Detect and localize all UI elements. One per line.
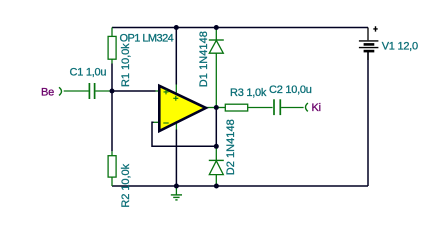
op-amp OP1 [154,85,217,132]
diode D1 [209,28,224,108]
resistor R3 [216,104,272,111]
capacitor C2 [274,99,280,115]
wire C2 to output port [281,107,304,109]
svg-text:R3 1,0k: R3 1,0k [230,87,267,99]
junction D1 on top rail [214,25,219,30]
wire C1 left lead [64,90,89,92]
port Be input connector [59,87,62,95]
svg-text:D2 1N4148: D2 1N4148 [225,119,237,175]
svg-text:Be: Be [41,86,54,98]
wire V+ supply from top rail to op-amp [175,28,177,85]
wire node A to R2 [111,91,113,151]
resistor R2 [108,151,116,186]
wire left vertical R1 to node A [111,64,113,92]
junction ground on bottom rail [174,184,179,189]
junction V+ on top rail [174,25,179,30]
battery V1 [359,26,379,60]
wire node A to op-amp noninverting input [112,90,156,92]
svg-text:OP1 LM324: OP1 LM324 [120,32,174,44]
junction feedback node [214,144,219,149]
svg-text:C1 1,0u: C1 1,0u [70,67,107,79]
svg-text:Ki: Ki [312,102,321,114]
wire bottom rail [112,185,368,187]
svg-text:R2 10,0k: R2 10,0k [120,163,132,207]
junction D2 on bottom rail [214,184,219,189]
capacitor C1 [89,83,94,99]
resistor R1 [108,28,116,64]
port Ki output connector [306,103,308,111]
diode D2 [209,146,224,186]
wire V- supply from op-amp to bottom rail [175,130,177,187]
wire output node to feedback node [215,108,217,147]
svg-text:V1 12,0: V1 12,0 [382,41,418,53]
svg-text:D1 1N4148: D1 1N4148 [198,31,210,87]
ground [171,186,182,200]
wire battery return right side [367,52,369,186]
svg-text:R1 10,0k: R1 10,0k [120,43,132,87]
junction node A C1/R1/R2/input [110,89,115,94]
junction output node [214,105,219,110]
wire C1 right lead [95,90,112,92]
wire feedback from inverting input to output node [152,122,216,146]
wire top rail [112,27,368,29]
svg-text:C2 10,0u: C2 10,0u [269,84,312,96]
